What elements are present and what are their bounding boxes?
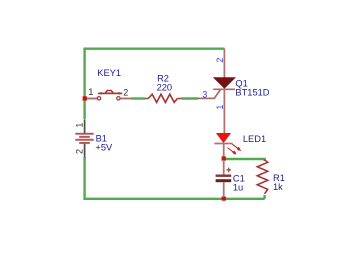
top pin bbox=[223, 160, 225, 175]
svg-text:3: 3 bbox=[202, 89, 207, 99]
top plate bbox=[216, 175, 232, 177]
junction below LED bbox=[222, 156, 226, 160]
plate long 1 bbox=[75, 133, 93, 135]
wire R1 bottom stub bbox=[263, 195, 265, 199]
led triangle bbox=[217, 133, 231, 142]
pin 1 top bbox=[84, 119, 86, 133]
pin 1 lead bbox=[86, 98, 97, 100]
svg-text:+5V: +5V bbox=[95, 142, 113, 152]
wire top horizontal bbox=[85, 49, 225, 98]
pin 2 circle bbox=[117, 97, 120, 100]
svg-text:1: 1 bbox=[75, 123, 85, 128]
wire LED junction to R1 bbox=[226, 159, 265, 161]
right lead bbox=[177, 98, 181, 100]
actuator bar bbox=[98, 92, 122, 94]
plate long 2 bbox=[75, 139, 93, 141]
svg-text:KEY1: KEY1 bbox=[97, 68, 121, 78]
svg-text:1k: 1k bbox=[273, 182, 283, 192]
led pin down bbox=[223, 144, 225, 158]
resistor R1 bbox=[257, 160, 285, 194]
anode pin from top wire bbox=[223, 49, 225, 79]
svg-text:220: 220 bbox=[157, 82, 173, 92]
gate lead bbox=[198, 89, 221, 99]
svg-text:1u: 1u bbox=[233, 183, 243, 193]
pin 1 circle bbox=[97, 97, 100, 100]
svg-text:2: 2 bbox=[74, 149, 84, 154]
cathode pin down bbox=[223, 89, 225, 134]
capacitor C1 bbox=[216, 160, 245, 197]
switch KEY1 bbox=[86, 68, 131, 100]
svg-text:2: 2 bbox=[215, 58, 225, 63]
zigzag bbox=[257, 160, 267, 194]
bottom plate bbox=[216, 179, 232, 182]
anode triangle bbox=[214, 78, 235, 88]
pin 2 bottom bbox=[84, 144, 86, 158]
LED LED1 bbox=[214, 133, 266, 157]
wire left vertical lower bbox=[83, 99, 85, 119]
plate short 2 bbox=[79, 142, 90, 144]
svg-text:BT151D: BT151D bbox=[235, 88, 269, 98]
left lead bbox=[145, 98, 148, 100]
pin 2 lead bbox=[120, 98, 131, 100]
resistor R2 bbox=[145, 73, 182, 102]
wire R2 to Q1 gate bbox=[182, 97, 199, 99]
thyristor Q1 bbox=[198, 49, 270, 135]
zigzag bbox=[148, 94, 177, 102]
led cathode bar bbox=[214, 143, 232, 145]
svg-text:1: 1 bbox=[88, 87, 93, 97]
cathode bar bbox=[213, 88, 235, 90]
actuator bump bbox=[105, 91, 113, 94]
emission arrow 2 bbox=[228, 148, 237, 155]
plus sign bbox=[226, 168, 231, 173]
svg-text:1: 1 bbox=[215, 105, 225, 110]
wire switch to R2 bbox=[131, 97, 145, 99]
junction at switch branch bbox=[83, 96, 87, 100]
svg-text:LED1: LED1 bbox=[243, 134, 266, 144]
actuator end taper bbox=[98, 92, 123, 95]
emission arrow 1 bbox=[232, 144, 241, 151]
bottom pin bbox=[223, 182, 225, 197]
svg-text:2: 2 bbox=[123, 88, 128, 98]
battery B1 bbox=[74, 119, 113, 157]
plate short 1 bbox=[79, 136, 90, 138]
junction at bottom wire bbox=[222, 196, 226, 200]
wire left bottom bbox=[85, 157, 265, 199]
